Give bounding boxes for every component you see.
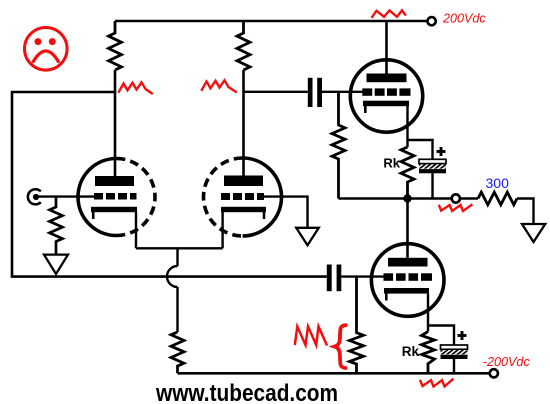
V3 cathode bbox=[363, 101, 409, 113]
capacitor bypass bottom (electrolytic) bbox=[441, 345, 468, 359]
red mark over rail bbox=[372, 10, 406, 17]
wire 300 to ground bbox=[517, 199, 534, 225]
terminal 200Vdc bbox=[428, 17, 436, 25]
triode V4 envelope bbox=[371, 244, 444, 317]
sad face icon bbox=[25, 28, 68, 71]
ground V2 grid bbox=[296, 228, 319, 246]
wire cap to V3 grid bbox=[322, 91, 363, 93]
wire cap to V4 grid bbox=[341, 275, 383, 277]
ground 300 bbox=[522, 224, 545, 242]
wire V2 grid to ground bbox=[264, 197, 308, 228]
wire terminal to resistor bbox=[460, 197, 478, 199]
wire bypass cap bottom top bbox=[431, 173, 433, 198]
terminal -200Vdc bbox=[490, 369, 498, 377]
V2 plate bbox=[224, 176, 263, 187]
V3 plate bbox=[367, 74, 407, 83]
node junction dot bbox=[403, 194, 411, 202]
wire V2 cathode lead bbox=[221, 211, 223, 248]
terminal output bbox=[452, 194, 460, 202]
wire cathode join bbox=[136, 247, 223, 249]
wire bypass cap bottom lead bbox=[453, 359, 455, 373]
red mark near mid plate resistor bbox=[201, 80, 237, 92]
resistor grid-leak top bbox=[332, 92, 345, 199]
wire Rk bypass branch bottom bbox=[428, 326, 454, 346]
wire V4 plate to node bbox=[406, 199, 409, 258]
svg-text:300: 300 bbox=[486, 175, 510, 191]
triode V2 envelope bbox=[204, 158, 282, 236]
plus sign bottom cap bbox=[458, 331, 467, 340]
wire V3 plate to rail bbox=[385, 21, 388, 74]
wire negative rail bbox=[178, 372, 490, 375]
red mark near left plate resistor bbox=[118, 82, 153, 94]
wire V3 cathode lead bbox=[406, 106, 408, 147]
svg-text:-200Vdc: -200Vdc bbox=[483, 355, 531, 369]
wire tail mid bbox=[176, 287, 178, 332]
wire jack to grid bbox=[35, 195, 95, 197]
wire V4 cathode lead bbox=[427, 294, 429, 332]
V1 grid bbox=[94, 193, 137, 200]
V1 plate bbox=[95, 176, 134, 186]
triode V1 envelope bbox=[78, 159, 155, 236]
V4 plate bbox=[388, 258, 428, 267]
resistor plate-left bbox=[109, 21, 122, 70]
V4 cathode bbox=[384, 288, 429, 301]
resistor grid-leak bottom bbox=[350, 277, 364, 374]
resistor 300 bbox=[478, 192, 517, 205]
wire B+ top rail bbox=[115, 20, 427, 23]
wire feedback top bbox=[12, 92, 327, 277]
V3 grid bbox=[362, 88, 410, 95]
V1 cathode bbox=[91, 207, 137, 219]
input jack bbox=[28, 189, 41, 204]
capacitor bypass top (electrolytic) bbox=[419, 159, 446, 173]
red mark scribble bottom bbox=[295, 327, 327, 346]
resistor plate-mid bbox=[237, 21, 250, 70]
wire hop over feedback bbox=[167, 266, 178, 287]
svg-text:www.tubecad.com: www.tubecad.com bbox=[155, 380, 338, 404]
plus sign top cap bbox=[437, 147, 446, 156]
V2 grid bbox=[221, 193, 264, 200]
resistor Rk top bbox=[401, 147, 414, 199]
ground input bbox=[44, 255, 68, 274]
svg-text:200Vdc: 200Vdc bbox=[442, 12, 486, 26]
wire left plate lead bbox=[114, 70, 117, 176]
capacitor coupling top bbox=[308, 78, 322, 107]
wire tail drop bbox=[176, 248, 178, 266]
red brace bbox=[335, 325, 346, 368]
red mark under output bbox=[439, 204, 473, 211]
resistor Rk bottom bbox=[422, 332, 435, 374]
svg-text:Rk: Rk bbox=[383, 156, 400, 171]
triode V3 envelope bbox=[350, 60, 422, 132]
wire output node horizontal bbox=[339, 197, 452, 200]
wire mid plate lead bbox=[242, 70, 245, 176]
V2 cathode bbox=[221, 207, 266, 219]
svg-text:Rk: Rk bbox=[402, 344, 420, 359]
resistor input shunt bbox=[50, 197, 63, 255]
resistor tail bbox=[171, 332, 184, 373]
capacitor coupling bottom bbox=[327, 265, 342, 292]
wire plate to cap top bbox=[244, 91, 308, 93]
red mark under negative rail bbox=[420, 379, 453, 387]
V4 grid bbox=[384, 273, 433, 281]
wire Rk bypass branch top bbox=[408, 140, 433, 159]
wire V1 cathode lead bbox=[135, 211, 137, 248]
